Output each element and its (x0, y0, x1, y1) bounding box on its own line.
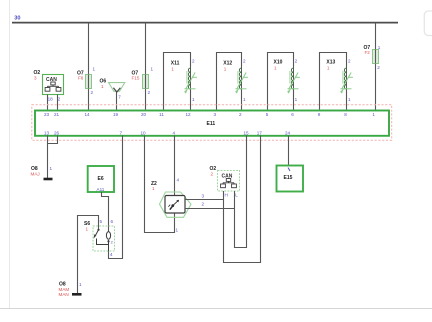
svg-text:1: 1 (176, 228, 179, 233)
svg-text:23: 23 (44, 112, 50, 117)
svg-text:1: 1 (224, 67, 227, 72)
svg-text:1: 1 (50, 166, 53, 171)
svg-text:17: 17 (257, 130, 263, 135)
svg-text:14: 14 (84, 112, 90, 117)
svg-text:1: 1 (79, 282, 82, 287)
svg-text:10: 10 (140, 130, 146, 135)
svg-text:2: 2 (348, 59, 351, 64)
svg-text:18: 18 (48, 97, 54, 102)
svg-text:12: 12 (185, 112, 191, 117)
svg-text:1: 1 (378, 45, 381, 50)
svg-text:1: 1 (372, 112, 375, 117)
svg-text:H: H (225, 193, 228, 198)
svg-text:6: 6 (111, 219, 114, 224)
svg-text:5: 5 (266, 112, 269, 117)
svg-text:A11: A11 (97, 187, 105, 192)
svg-text:L: L (235, 193, 238, 198)
svg-text:1: 1 (192, 97, 195, 102)
svg-text:2: 2 (58, 97, 61, 102)
svg-text:7: 7 (118, 95, 121, 100)
svg-text:19: 19 (113, 112, 119, 117)
svg-text:F15: F15 (132, 76, 140, 81)
svg-text:E6: E6 (98, 176, 104, 182)
svg-text:1: 1 (243, 97, 246, 102)
svg-text:E15: E15 (284, 175, 293, 181)
svg-text:2: 2 (377, 65, 380, 70)
svg-text:1: 1 (274, 66, 277, 71)
svg-text:2: 2 (211, 172, 214, 177)
svg-text:3: 3 (202, 194, 205, 199)
svg-text:6: 6 (291, 112, 294, 117)
svg-text:5: 5 (100, 219, 103, 224)
svg-text:15: 15 (243, 130, 249, 135)
svg-text:1: 1 (295, 97, 298, 102)
svg-text:8: 8 (344, 112, 347, 117)
svg-text:1: 1 (348, 97, 351, 102)
svg-text:4: 4 (110, 252, 113, 257)
svg-text:2: 2 (91, 90, 94, 95)
svg-text:1: 1 (151, 67, 154, 72)
svg-text:30: 30 (14, 15, 20, 21)
svg-text:4: 4 (177, 178, 180, 183)
svg-text:2: 2 (148, 90, 151, 95)
svg-text:1: 1 (101, 84, 104, 89)
svg-text:2: 2 (243, 59, 246, 64)
svg-text:2: 2 (239, 112, 242, 117)
svg-text:MAJ: MAJ (31, 172, 40, 177)
svg-text:11: 11 (159, 112, 164, 117)
svg-text:2: 2 (295, 59, 298, 64)
svg-text:F2: F2 (365, 50, 371, 55)
svg-text:1: 1 (86, 227, 89, 232)
svg-text:1: 1 (152, 186, 155, 191)
svg-text:24: 24 (285, 130, 291, 135)
svg-text:3: 3 (34, 76, 37, 81)
svg-text:4: 4 (173, 130, 176, 135)
svg-text:21: 21 (54, 112, 60, 117)
svg-text:2: 2 (202, 202, 205, 207)
svg-text:1: 1 (327, 66, 330, 71)
svg-text:F6: F6 (78, 76, 84, 81)
svg-text:9: 9 (318, 112, 321, 117)
svg-text:MAN: MAN (59, 292, 69, 297)
svg-text:1: 1 (171, 67, 174, 72)
svg-text:20: 20 (141, 112, 147, 117)
svg-text:E11: E11 (207, 121, 216, 127)
svg-text:1: 1 (93, 67, 96, 72)
svg-text:13: 13 (44, 130, 50, 135)
svg-text:26: 26 (54, 130, 60, 135)
svg-text:7: 7 (120, 130, 123, 135)
svg-text:3: 3 (214, 112, 217, 117)
svg-text:2: 2 (192, 59, 195, 64)
